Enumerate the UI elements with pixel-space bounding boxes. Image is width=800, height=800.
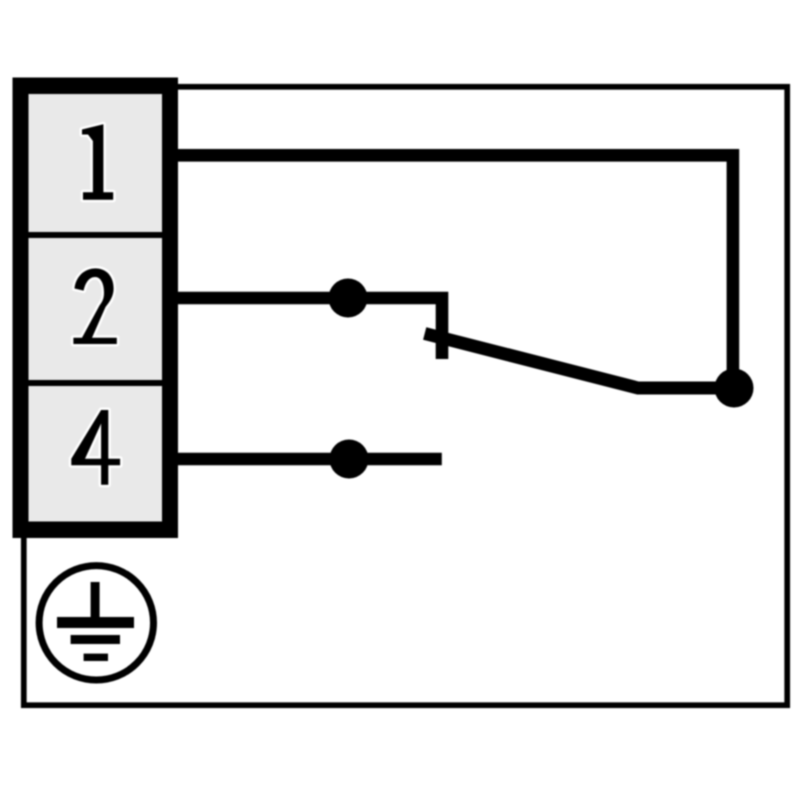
node right common junction — [715, 369, 754, 408]
protective earth symbol — [39, 566, 153, 680]
wire pin2 to switch fixed contact — [170, 298, 442, 359]
pin label 1 — [82, 124, 113, 200]
wire pin4 stub — [170, 453, 442, 466]
pin label 4 — [71, 410, 120, 485]
terminal block connector body — [13, 78, 179, 539]
node on pin4 wire — [330, 440, 369, 479]
node on pin2 wire — [329, 279, 368, 318]
device outline frame — [24, 87, 787, 705]
pin label 2 — [73, 268, 116, 344]
wire pin1 to right-side node — [170, 155, 733, 388]
switch blade from right node crossing fixed contact — [425, 334, 734, 389]
